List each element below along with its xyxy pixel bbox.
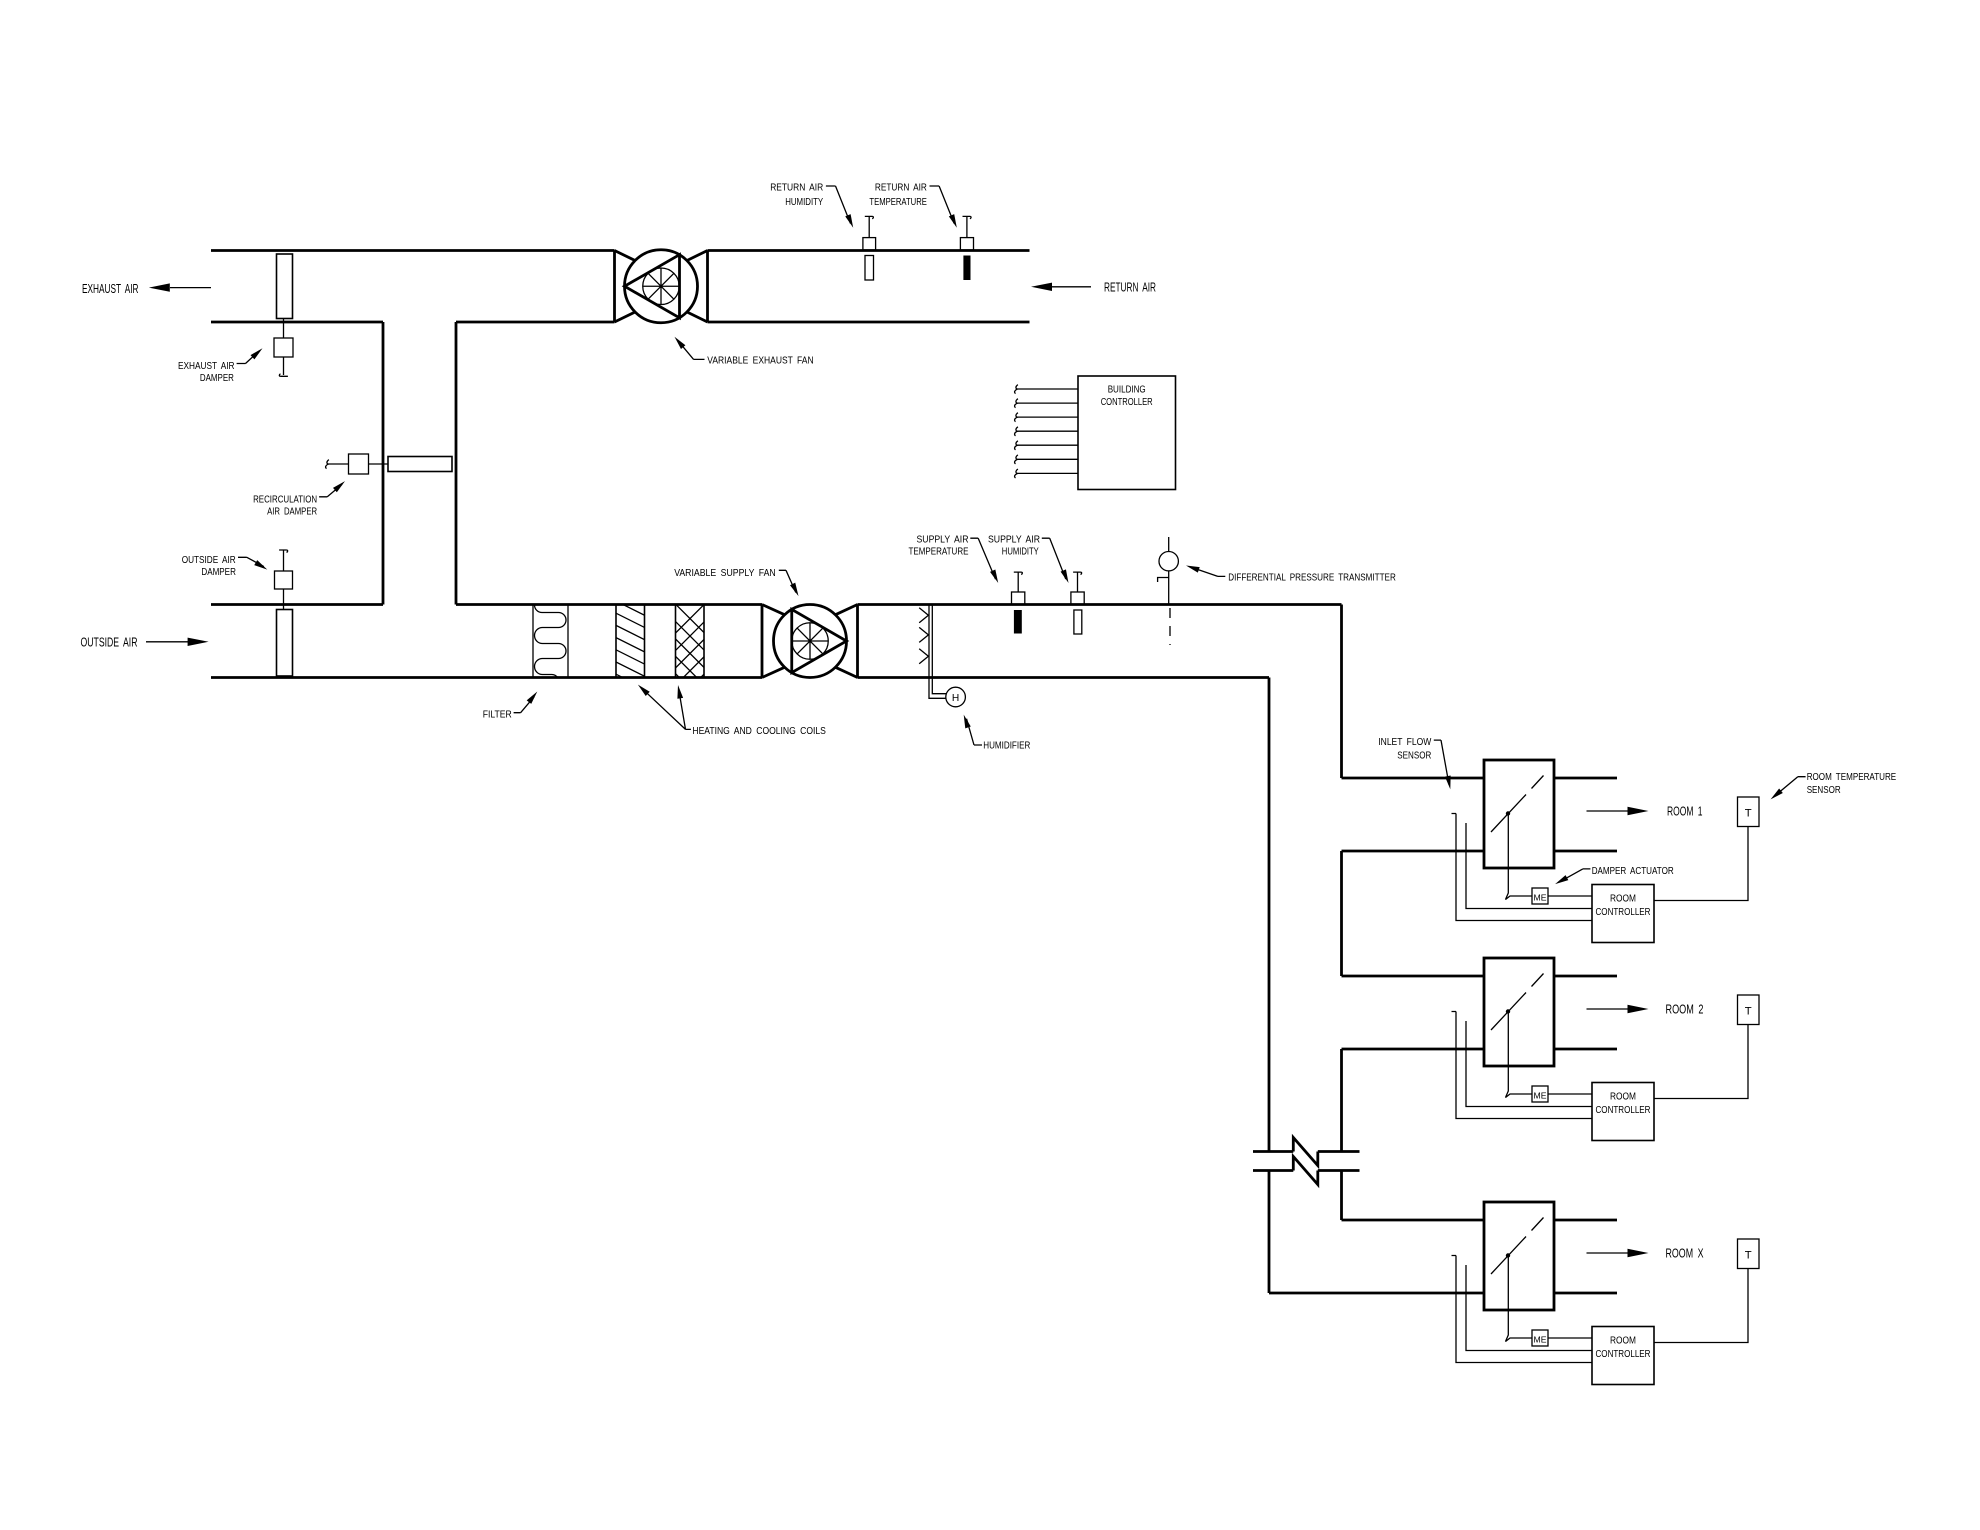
svg-text:TEMPERATURE: TEMPERATURE xyxy=(909,547,969,558)
wire: outside air flow arrow xyxy=(146,641,190,643)
wire: building controller input 1 xyxy=(1016,388,1078,390)
wire: return air humidity leader xyxy=(826,186,851,224)
wire: supply duct top line xyxy=(211,603,1342,606)
svg-text:INLET FLOW: INLET FLOW xyxy=(1378,737,1431,748)
damper VAV2: blade xyxy=(1491,974,1544,1031)
wire: room 1 damper pivot to actuator xyxy=(1506,816,1533,900)
svg-text:ROOM 2: ROOM 2 xyxy=(1666,1002,1704,1017)
wire: return air temperature leader xyxy=(930,186,955,224)
wire: supply riser left wall xyxy=(1268,678,1271,1294)
svg-text:RETURN AIR: RETURN AIR xyxy=(1104,280,1156,295)
sensor T2: room 2 temperature sensor xyxy=(1738,995,1760,1025)
svg-text:EXHAUST AIR: EXHAUST AIR xyxy=(178,361,235,372)
svg-text:VARIABLE EXHAUST FAN: VARIABLE EXHAUST FAN xyxy=(707,356,813,367)
wire: filter leader xyxy=(514,697,535,713)
sensor T1: room 1 temperature sensor xyxy=(1738,797,1760,827)
fan F2: variable supply fan xyxy=(762,605,858,678)
damper VAV2: room 2 damper box xyxy=(1484,958,1554,1066)
wire: room X controller to temperature sensor xyxy=(1654,1269,1748,1343)
wire: building controller input 3 xyxy=(1016,416,1078,418)
actuator ME1: room 1 damper actuator xyxy=(1532,888,1548,904)
wire: room 2 inlet duct bottom xyxy=(1342,1048,1618,1051)
svg-text:HEATING AND COOLING COILS: HEATING AND COOLING COILS xyxy=(692,726,826,737)
damper VAV3: blade xyxy=(1491,1218,1544,1275)
svg-text:EXHAUST AIR: EXHAUST AIR xyxy=(82,281,139,296)
svg-text:HUMIDIFIER: HUMIDIFIER xyxy=(983,741,1030,752)
svg-text:DAMPER: DAMPER xyxy=(200,373,234,384)
sensor: return air humidity sensor xyxy=(863,216,876,280)
wire: inlet flow sensor leader xyxy=(1434,740,1449,784)
wire: exhaust damper actuator signal stub xyxy=(283,357,285,375)
wire: outside air damper leader xyxy=(238,557,264,566)
svg-text:OUTSIDE AIR: OUTSIDE AIR xyxy=(81,635,138,650)
actuator ME3: room X damper actuator xyxy=(1532,1330,1548,1346)
coil CC1: cooling coil xyxy=(662,591,718,717)
wire: room 2 controller to temperature sensor xyxy=(1654,1025,1748,1099)
controller RC3: room X room controller xyxy=(1592,1327,1654,1385)
svg-text:SENSOR: SENSOR xyxy=(1397,750,1431,761)
wire: coils leader xyxy=(642,688,691,729)
svg-text:SUPPLY AIR: SUPPLY AIR xyxy=(988,534,1040,545)
svg-text:H: H xyxy=(952,693,959,704)
wire: recirculation damper leader xyxy=(319,484,342,496)
wire: building controller input 4 xyxy=(1016,430,1078,432)
svg-text:ROOM: ROOM xyxy=(1610,1092,1636,1103)
actuator: outside air damper actuator xyxy=(275,571,293,589)
damper D2: recirculation air damper blade xyxy=(388,457,452,472)
break: duct break symbol xyxy=(1253,1138,1360,1185)
wire: room 1 outlet arrow xyxy=(1587,810,1631,812)
sensor: supply air humidity sensor xyxy=(1071,572,1084,634)
fan F1: variable exhaust fan xyxy=(615,250,708,323)
wire: damper actuator leader xyxy=(1560,869,1591,882)
controller U1: building controller box xyxy=(1078,376,1176,490)
damper D1: exhaust air damper blade xyxy=(277,254,293,319)
wire: room X damper pivot to actuator xyxy=(1506,1258,1533,1342)
wire: exhaust duct bottom line xyxy=(211,321,1030,324)
svg-text:DAMPER: DAMPER xyxy=(201,567,236,578)
wire: room 2 outlet arrow xyxy=(1587,1008,1631,1010)
svg-text:ME: ME xyxy=(1534,1334,1547,1344)
controller RC1: room 1 room controller xyxy=(1592,885,1654,943)
svg-text:CONTROLLER: CONTROLLER xyxy=(1596,1349,1651,1360)
svg-text:OUTSIDE AIR: OUTSIDE AIR xyxy=(182,555,236,566)
svg-text:FILTER: FILTER xyxy=(483,709,512,720)
coil HC1: heating coil xyxy=(610,598,650,691)
svg-text:RETURN AIR: RETURN AIR xyxy=(875,182,927,193)
sensor: room X inlet flow sensor probes xyxy=(1452,1256,1593,1363)
svg-text:HUMIDITY: HUMIDITY xyxy=(785,197,823,208)
svg-text:HUMIDITY: HUMIDITY xyxy=(1002,547,1039,558)
actuator ME2: room 2 damper actuator xyxy=(1532,1086,1548,1102)
wire: recirculation duct right wall xyxy=(455,322,458,605)
svg-text:RECIRCULATION: RECIRCULATION xyxy=(253,494,317,505)
svg-text:ROOM: ROOM xyxy=(1610,894,1636,905)
wire: differential pressure transmitter leader xyxy=(1191,567,1226,576)
controller RC2: room 2 room controller xyxy=(1592,1083,1654,1141)
svg-text:ROOM: ROOM xyxy=(1610,1336,1636,1347)
svg-text:CONTROLLER: CONTROLLER xyxy=(1596,1105,1651,1116)
wire: variable exhaust fan leader xyxy=(678,340,705,359)
wire: building controller input 2 xyxy=(1016,402,1078,404)
wire: supply riser right wall xyxy=(1340,605,1343,1221)
damper D3: outside air damper blade xyxy=(277,610,293,677)
svg-text:CONTROLLER: CONTROLLER xyxy=(1596,907,1651,918)
wire: exhaust damper stem to actuator xyxy=(283,319,285,339)
svg-text:ROOM X: ROOM X xyxy=(1666,1246,1704,1261)
wire: exhaust air damper leader xyxy=(237,352,259,364)
wire: recirculation duct left wall xyxy=(382,322,385,605)
svg-text:SENSOR: SENSOR xyxy=(1807,785,1841,796)
wire: room X outlet arrow xyxy=(1587,1252,1631,1254)
svg-text:T: T xyxy=(1745,808,1752,820)
wire: room 1 inlet duct bottom xyxy=(1342,850,1618,853)
wire: room X actuator to controller xyxy=(1548,1337,1592,1339)
wire: room X inlet duct bottom xyxy=(1269,1292,1617,1295)
sensor: return air temperature sensor xyxy=(960,216,973,280)
svg-text:BUILDING: BUILDING xyxy=(1108,384,1146,395)
wire: supply air temperature leader xyxy=(970,538,995,579)
wire: building controller input 6 xyxy=(1016,458,1078,460)
svg-text:ROOM TEMPERATURE: ROOM TEMPERATURE xyxy=(1807,772,1897,783)
svg-text:TEMPERATURE: TEMPERATURE xyxy=(869,197,927,208)
wire: variable supply fan leader xyxy=(779,570,796,592)
svg-text:CONTROLLER: CONTROLLER xyxy=(1101,397,1153,408)
transmitter DPT1: differential pressure transmitter xyxy=(1158,537,1179,645)
wire: supply duct bottom line xyxy=(211,676,1269,679)
svg-text:SUPPLY AIR: SUPPLY AIR xyxy=(917,534,969,545)
humidifier H1: H bubble xyxy=(946,687,966,707)
wire: exhaust air flow arrow xyxy=(170,287,211,289)
sensor: room 2 inlet flow sensor probes xyxy=(1452,1012,1593,1119)
wire: exhaust duct top line xyxy=(211,249,1030,252)
svg-text:RETURN AIR: RETURN AIR xyxy=(770,182,823,193)
svg-text:ME: ME xyxy=(1534,892,1547,902)
svg-text:VARIABLE SUPPLY FAN: VARIABLE SUPPLY FAN xyxy=(674,568,776,579)
damper VAV1: room 1 damper box xyxy=(1484,760,1554,868)
svg-text:ME: ME xyxy=(1534,1090,1547,1100)
wire: room temperature sensor leader xyxy=(1775,777,1806,797)
wire: room 2 inlet duct top xyxy=(1342,975,1618,978)
svg-text:DIFFERENTIAL PRESSURE TRANSMIT: DIFFERENTIAL PRESSURE TRANSMITTER xyxy=(1228,572,1396,583)
sensor T3: room X temperature sensor xyxy=(1738,1239,1760,1269)
wire: building controller input 5 xyxy=(1016,444,1078,446)
wire: room 1 inlet duct top xyxy=(1342,777,1618,780)
wire: supply air humidity leader xyxy=(1042,538,1066,579)
wire: room 1 actuator to controller xyxy=(1548,895,1592,897)
svg-text:ROOM 1: ROOM 1 xyxy=(1667,804,1703,819)
wire: room 2 actuator to controller xyxy=(1548,1093,1592,1095)
wire: room X inlet duct top xyxy=(1342,1219,1618,1222)
svg-text:DAMPER ACTUATOR: DAMPER ACTUATOR xyxy=(1592,866,1674,877)
wire: outside damper actuator signal stub xyxy=(283,550,285,571)
humidifier H1: steam pipe and chevrons xyxy=(919,605,946,699)
svg-text:T: T xyxy=(1745,1006,1752,1018)
wire: outside damper stem to actuator xyxy=(283,589,285,610)
sensor: room 1 inlet flow sensor probes xyxy=(1452,814,1593,921)
wire: building controller input 7 xyxy=(1016,472,1078,474)
svg-text:T: T xyxy=(1745,1250,1752,1262)
wire: recirculation actuator links xyxy=(327,463,388,465)
wire: humidifier leader xyxy=(967,719,983,745)
filter FL1 xyxy=(533,605,568,678)
actuator: exhaust air damper actuator xyxy=(274,338,293,357)
wire: return air flow arrow xyxy=(1052,286,1091,288)
sensor: supply air temperature sensor xyxy=(1012,572,1025,633)
wire: room 2 damper pivot to actuator xyxy=(1506,1014,1533,1098)
actuator: recirculation air damper actuator xyxy=(349,454,369,474)
damper VAV3: room X damper box xyxy=(1484,1202,1554,1310)
svg-text:AIR DAMPER: AIR DAMPER xyxy=(267,507,317,518)
wire: room 1 controller to temperature sensor xyxy=(1654,827,1748,901)
damper VAV1: blade xyxy=(1491,776,1544,833)
